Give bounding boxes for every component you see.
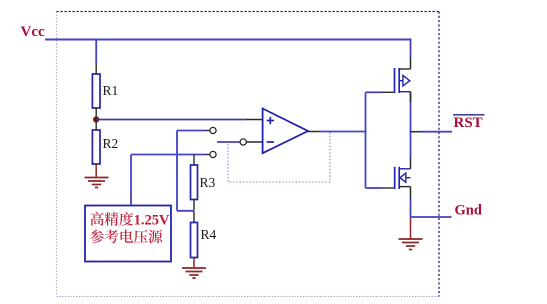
wire Vcc to Q1 drain <box>410 40 412 70</box>
op-amp U1 comparator <box>263 109 308 154</box>
wire R4 to ground <box>193 258 195 269</box>
wire to Q1 gate <box>366 91 395 93</box>
resistor R1 <box>92 74 118 108</box>
wire to Q2 gate <box>366 187 395 189</box>
wire drain node to RST <box>411 131 453 133</box>
ground under R4 <box>182 268 206 278</box>
wire gate bus vertical <box>365 92 367 188</box>
wire R2 to ground <box>95 164 97 178</box>
dotted hysteresis box <box>228 133 330 183</box>
svg-text:1.25V: 1.25V <box>134 213 170 229</box>
wire node to comparator + input <box>96 119 263 121</box>
node junction R1/R2 <box>93 116 99 122</box>
label 参考电压源 <box>90 230 162 244</box>
wire Q2 source down <box>410 187 412 217</box>
terminal circle reference <box>210 151 216 157</box>
ground under Q2 <box>399 239 423 250</box>
wire Q1 source to Q2 drain <box>410 92 412 169</box>
wire reference box to selector <box>131 155 210 206</box>
wire junction to R4 <box>193 211 195 223</box>
dashed schematic border <box>57 12 440 297</box>
wire to R3 top <box>193 155 195 166</box>
svg-text:R1: R1 <box>103 83 119 98</box>
label 高精度1.25V <box>90 212 170 229</box>
terminal circle - input <box>240 139 246 145</box>
wire R3 bottom to junction <box>193 200 195 211</box>
reference source box U-ref <box>85 206 171 262</box>
transistor Q1 <box>395 68 411 93</box>
terminal circle divider <box>210 127 216 133</box>
svg-text:R4: R4 <box>201 227 217 242</box>
transistor Q2 <box>395 167 411 189</box>
svg-text:Vcc: Vcc <box>21 24 45 40</box>
wire op-amp output <box>308 131 366 133</box>
wire R1 to node <box>95 108 97 120</box>
resistor R4 <box>191 223 217 258</box>
resistor R2 <box>92 130 118 164</box>
ground under R2 <box>85 178 109 188</box>
net label RST with overline <box>453 115 485 131</box>
wire Vcc to R1 <box>95 40 97 75</box>
svg-text:R2: R2 <box>103 136 119 151</box>
svg-text:R3: R3 <box>200 175 216 190</box>
wire to ground symbol <box>410 217 412 239</box>
wire node to R2 <box>95 120 97 131</box>
svg-text:Gnd: Gnd <box>455 203 482 219</box>
wire Vcc rail <box>45 39 412 41</box>
wire divider junction to selector <box>177 131 210 211</box>
svg-text:RST: RST <box>454 115 483 131</box>
wire comparator - input stub <box>217 141 263 143</box>
wire Gnd <box>411 216 452 218</box>
resistor R3 <box>191 165 216 200</box>
